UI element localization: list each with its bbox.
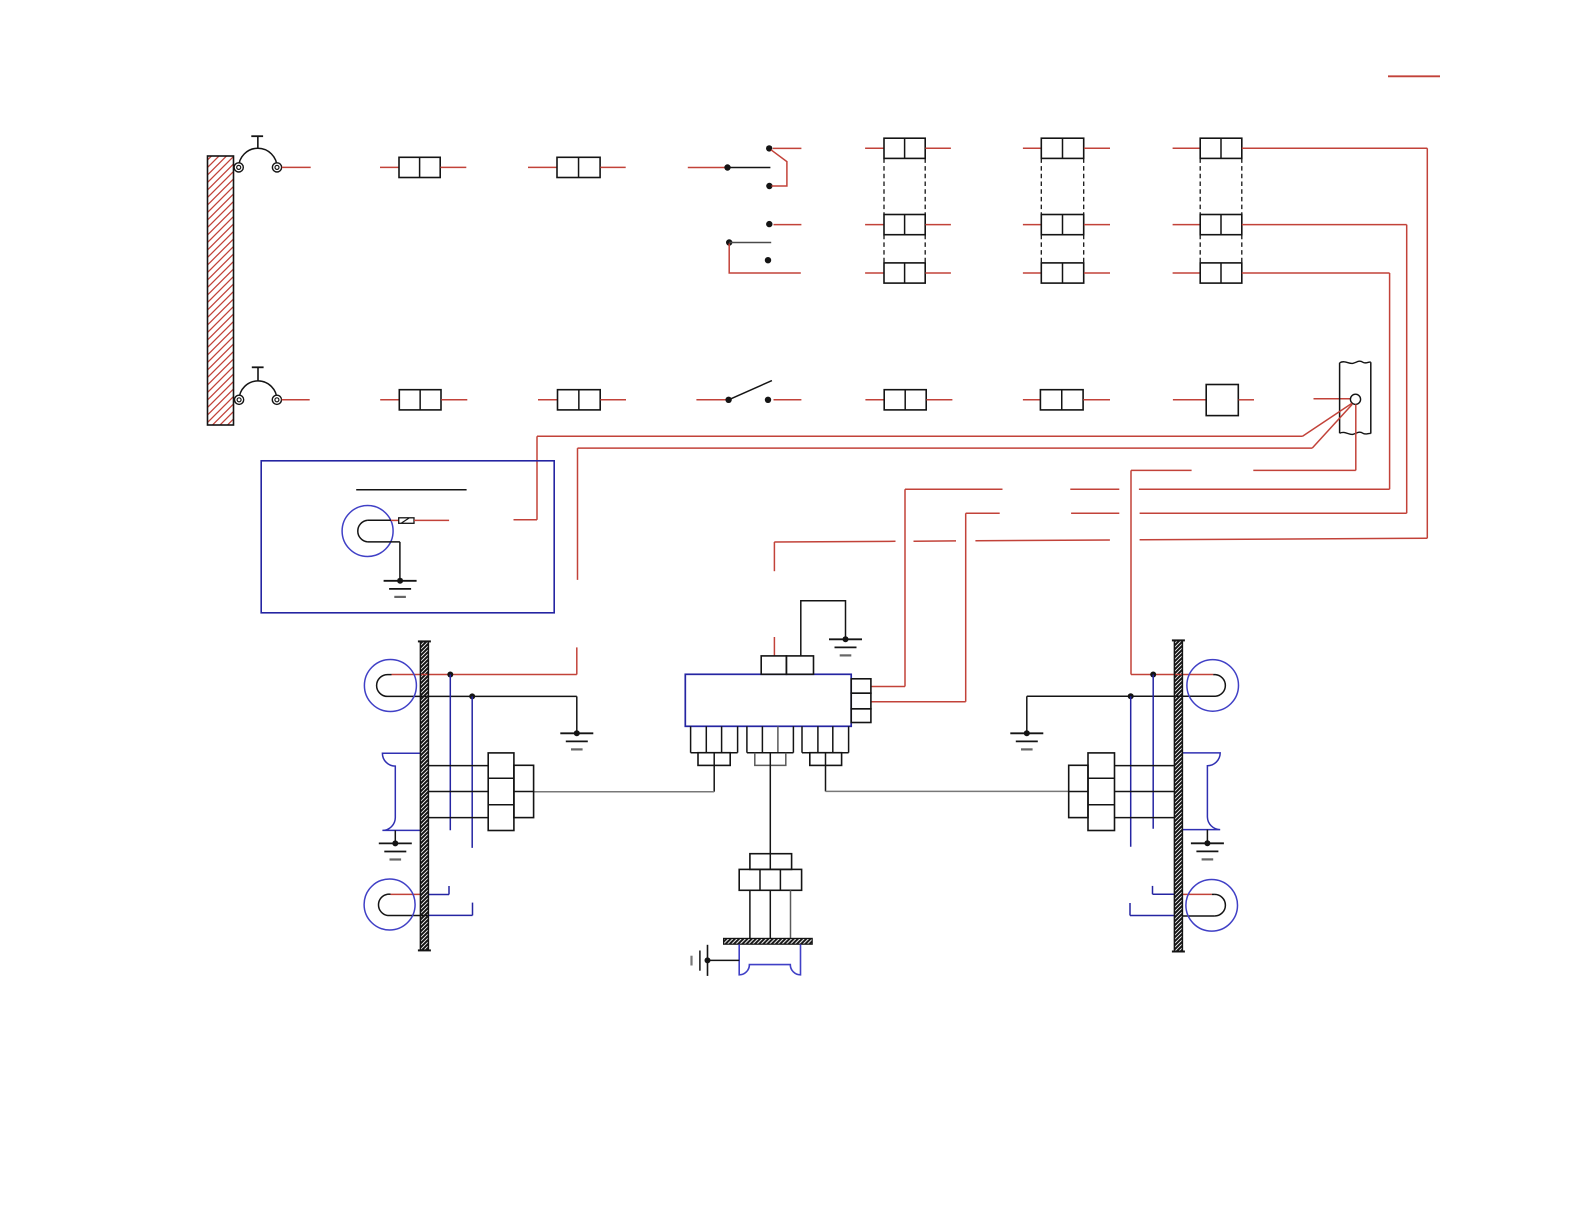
- wire: [577, 448, 579, 580]
- left fender panel border: [418, 641, 431, 950]
- wire: [1023, 147, 1041, 149]
- wire: [769, 890, 771, 938]
- wire: [1242, 272, 1390, 274]
- wire: [428, 791, 488, 793]
- wire: [399, 542, 401, 581]
- connector C121 row2: [1041, 215, 1083, 235]
- wire: [975, 539, 1110, 542]
- horn H2: [235, 367, 282, 404]
- wire: [1314, 398, 1351, 400]
- wire: [1140, 512, 1407, 514]
- ground (chassis, rotated): [692, 945, 711, 976]
- speaker/horn bracket left: [382, 753, 421, 830]
- wire: [1153, 886, 1175, 894]
- wire: [871, 701, 966, 703]
- ground: [1191, 840, 1224, 859]
- connector C132: [810, 753, 842, 766]
- wire: [428, 765, 488, 767]
- wire: [578, 447, 1313, 449]
- horn relay box: [261, 461, 554, 613]
- wire: [428, 817, 488, 819]
- wire: [1312, 404, 1352, 448]
- label rule: [356, 489, 466, 491]
- wire: [825, 765, 827, 791]
- connector C121 link (dashed): [1041, 158, 1083, 263]
- wire: [576, 647, 578, 674]
- wire: [771, 150, 787, 186]
- ground: [829, 636, 862, 655]
- wire: [388, 695, 577, 697]
- connector C120 row1: [884, 138, 925, 158]
- wire: [600, 166, 625, 168]
- wire: [749, 890, 751, 938]
- wire: [1355, 404, 1357, 470]
- module bottom connector g2: [747, 726, 794, 752]
- connector C121 row1: [1041, 138, 1083, 158]
- wire: [1389, 273, 1391, 489]
- wire: [1023, 399, 1041, 401]
- connector C141: [514, 765, 534, 817]
- wire: [428, 886, 449, 895]
- connector C121 row3: [1041, 263, 1083, 283]
- wire: [534, 791, 715, 793]
- wire: [871, 686, 905, 688]
- connector C142: [1088, 753, 1115, 831]
- module top connector: [761, 656, 813, 674]
- wire: [1084, 147, 1110, 149]
- wire: [388, 915, 429, 917]
- lamp L3 (right turn signal): [1187, 660, 1239, 712]
- right fender panel border: [1172, 640, 1185, 951]
- wire: [1130, 696, 1132, 846]
- fuse F1: [399, 518, 414, 524]
- ground: [1010, 730, 1043, 749]
- horn symbol (in relay box): [342, 506, 400, 557]
- switch S3: [725, 381, 772, 403]
- wire: [1426, 148, 1428, 538]
- connector C122 row1: [1200, 138, 1242, 158]
- wire: [538, 399, 558, 401]
- wire: [471, 696, 473, 848]
- wire: [773, 637, 775, 656]
- wire: [1173, 272, 1201, 274]
- sensor body: [739, 944, 800, 974]
- junction: [447, 672, 453, 678]
- wire: [790, 890, 792, 938]
- lamp L1 (left turn signal): [364, 660, 416, 712]
- wire: [1182, 915, 1214, 917]
- junction: [469, 693, 475, 699]
- wire: [769, 765, 771, 853]
- wire: [774, 399, 802, 401]
- left fender panel (hatched): [420, 642, 428, 950]
- connector C140: [488, 753, 514, 831]
- wire: [414, 519, 449, 521]
- wire: [1131, 469, 1192, 471]
- wire: [1303, 403, 1353, 436]
- wire: [1130, 903, 1174, 916]
- wire: [865, 272, 884, 274]
- wire: [774, 224, 802, 226]
- firewall / bulkhead (hatched): [208, 156, 234, 425]
- wire: [729, 244, 801, 274]
- wire: [1140, 538, 1428, 540]
- wire: [1388, 75, 1440, 77]
- wire: [1071, 512, 1119, 514]
- connector C111: [557, 157, 600, 177]
- wire: [391, 893, 421, 895]
- wire: [865, 224, 884, 226]
- right fender panel (hatched): [1174, 641, 1182, 952]
- wire: [904, 489, 906, 686]
- wire: [826, 790, 1069, 792]
- connector C113: [558, 390, 601, 410]
- wire: [1152, 675, 1154, 829]
- wire: [1406, 225, 1408, 514]
- connector C133: [750, 854, 792, 870]
- wire: [1023, 224, 1041, 226]
- wire: [576, 696, 578, 733]
- module bottom connector g1: [691, 726, 738, 752]
- wire: [914, 540, 957, 542]
- wire: [713, 765, 715, 791]
- wire: [1242, 224, 1407, 226]
- ground: [379, 840, 412, 859]
- wire: [536, 436, 538, 520]
- wire: [1083, 399, 1110, 401]
- connector C125: [1206, 385, 1238, 416]
- wire: [282, 399, 310, 401]
- wire: [391, 519, 399, 521]
- switch S1 (horn relay contact): [724, 145, 772, 189]
- connector C122 row3: [1200, 263, 1242, 283]
- wire: [394, 830, 396, 843]
- wire: [696, 399, 728, 401]
- wire: [925, 147, 951, 149]
- wire: [1173, 224, 1201, 226]
- wire: [1084, 272, 1110, 274]
- wire: [865, 399, 884, 401]
- wire: [282, 166, 311, 168]
- wire: [600, 399, 626, 401]
- wire: [441, 399, 467, 401]
- wire: [1253, 469, 1356, 471]
- junction: [1128, 693, 1134, 699]
- connector C122 link (dashed): [1200, 158, 1242, 263]
- wire: [449, 675, 451, 831]
- connector C110: [399, 157, 440, 177]
- connector C120 row3: [884, 263, 925, 283]
- connector C124: [1040, 390, 1083, 410]
- wire: [965, 513, 967, 702]
- wire: [865, 147, 884, 149]
- connector C120 link (dashed): [884, 158, 925, 263]
- wire: [1206, 830, 1208, 844]
- connector C131: [755, 753, 786, 766]
- wire: [1173, 399, 1206, 401]
- wire: [905, 488, 1003, 490]
- wire: [1139, 488, 1390, 490]
- wire: [1023, 272, 1041, 274]
- connector C143: [1069, 765, 1088, 817]
- wire: [1115, 791, 1175, 793]
- wire: [801, 601, 846, 656]
- sensor mounting plate (hatched): [724, 938, 813, 944]
- switch S2 contact: [766, 221, 772, 227]
- wire: [1182, 893, 1212, 895]
- wire: [428, 903, 472, 916]
- module bottom connector g3: [802, 726, 849, 752]
- ground: [560, 730, 593, 749]
- connector C120 row2: [884, 215, 925, 235]
- wire: [1131, 674, 1213, 676]
- wire: [774, 540, 895, 543]
- connector C130: [698, 753, 730, 766]
- wire: [1070, 488, 1119, 490]
- speaker/horn bracket right: [1182, 753, 1220, 830]
- wire: [925, 272, 951, 274]
- wire: [1173, 147, 1201, 149]
- horn H1: [234, 136, 282, 172]
- wire: [392, 674, 577, 676]
- module side connector: [851, 679, 871, 723]
- wire: [1084, 224, 1110, 226]
- wire: [688, 167, 728, 169]
- wire: [1115, 765, 1175, 767]
- wire: [380, 399, 399, 401]
- connector C122 row2: [1200, 215, 1242, 235]
- wire: [773, 147, 802, 149]
- control module: [685, 674, 851, 726]
- wire: [1242, 147, 1428, 149]
- wire: [528, 166, 557, 168]
- wire: [440, 166, 466, 168]
- lamp L2 (left front park): [364, 879, 415, 930]
- wire: [1130, 470, 1132, 674]
- ground: [384, 578, 417, 597]
- node (terminal): [1350, 394, 1360, 404]
- ignition switch (partial, torn edges): [1340, 361, 1371, 434]
- wire: [773, 542, 775, 571]
- wire: [537, 435, 1303, 437]
- wire: [380, 166, 399, 168]
- junction: [1150, 672, 1156, 678]
- wire: [925, 224, 951, 226]
- wire: [1027, 695, 1216, 697]
- wire: [1026, 696, 1028, 733]
- wire: [966, 512, 1000, 514]
- lamp L4 (right front park): [1186, 880, 1238, 932]
- wire: [1239, 399, 1255, 401]
- wire: [926, 399, 952, 401]
- connector C134: [739, 869, 801, 890]
- wire: [514, 519, 538, 521]
- switch S2 (blade): [726, 239, 771, 263]
- wire: [1115, 817, 1175, 819]
- wire: [708, 959, 740, 961]
- connector C112: [399, 390, 441, 410]
- connector C123: [884, 390, 926, 410]
